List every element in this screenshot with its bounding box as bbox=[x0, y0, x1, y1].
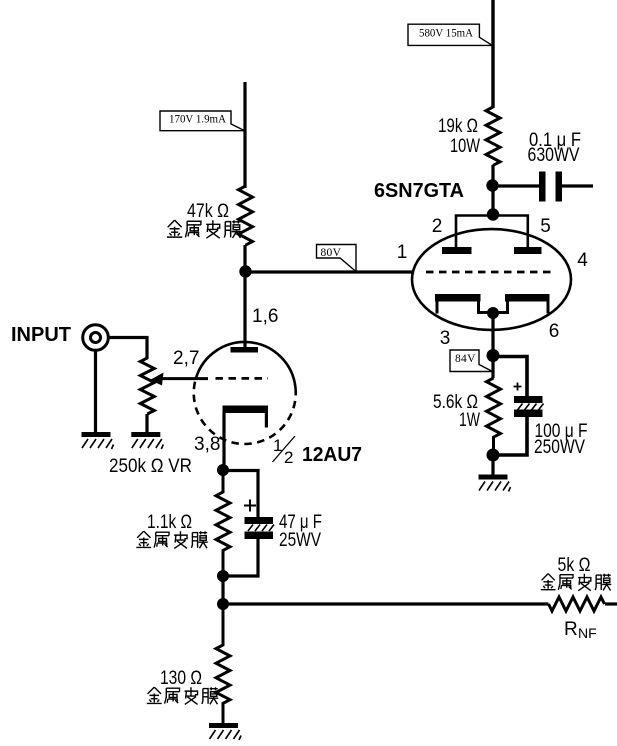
svg-text:2,7: 2,7 bbox=[173, 348, 199, 369]
svg-text:170V 1.9mA: 170V 1.9mA bbox=[169, 114, 227, 126]
cathode 6SN7 section 1 bbox=[435, 294, 508, 314]
resistor 5.6k bbox=[487, 378, 501, 455]
node NFB junction bbox=[217, 598, 229, 610]
capacitor C 100uF branch bbox=[493, 357, 544, 456]
voltage callout 170V 1.9mA bbox=[160, 111, 245, 131]
svg-text:1: 1 bbox=[273, 436, 282, 455]
ground (potentiometer) bbox=[131, 432, 163, 449]
wire node to 12AU7 plate bbox=[243, 272, 246, 348]
svg-text:630WV: 630WV bbox=[528, 145, 580, 166]
svg-text:25WV: 25WV bbox=[279, 530, 321, 551]
resistor 130 kanji label 金属皮膜 bbox=[147, 687, 218, 704]
svg-text:80V: 80V bbox=[321, 247, 342, 259]
voltage callout 580V 15mA bbox=[408, 24, 492, 45]
label R NF bbox=[564, 619, 597, 641]
resistor 47k bbox=[239, 186, 253, 245]
svg-text:12AU7: 12AU7 bbox=[302, 444, 362, 466]
svg-text:47k Ω: 47k Ω bbox=[187, 201, 229, 222]
resistor 5k kanji label 金属皮膜 bbox=[541, 574, 611, 591]
node cap return junction bbox=[217, 570, 229, 582]
wire B+ feed left stage bbox=[243, 82, 246, 188]
svg-text:19k Ω: 19k Ω bbox=[438, 116, 478, 137]
node plate rail junction bbox=[487, 208, 499, 220]
resistor 47k kanji label 金属皮膜 bbox=[167, 220, 241, 238]
svg-text:R: R bbox=[564, 619, 578, 640]
wire cathode down bbox=[491, 313, 494, 378]
plate rail 6SN7 bbox=[456, 216, 528, 248]
voltage callout 80V bbox=[317, 245, 357, 272]
resistor 1.1k bbox=[216, 470, 230, 576]
svg-text:1W: 1W bbox=[459, 410, 480, 431]
wire 19k to plates bbox=[491, 165, 494, 216]
node cathode junction 6SN7 bbox=[487, 307, 499, 319]
node plate junction bbox=[239, 265, 251, 277]
svg-text:1.1k Ω: 1.1k Ω bbox=[147, 512, 192, 533]
cathode 12AU7 bbox=[223, 406, 269, 471]
svg-text:2: 2 bbox=[284, 448, 293, 467]
resistor 130 bbox=[216, 604, 230, 723]
node coupling junction bbox=[486, 179, 498, 191]
resistor 19k bbox=[486, 107, 500, 165]
capacitor C 0.1uF bbox=[493, 172, 593, 202]
svg-text:4: 4 bbox=[577, 250, 588, 271]
potentiometer VR 250k bbox=[140, 358, 208, 432]
svg-text:1: 1 bbox=[397, 242, 408, 263]
ground (input jack) bbox=[82, 432, 114, 449]
svg-text:2: 2 bbox=[432, 216, 443, 237]
triode U1 1/2 12AU7 envelope bbox=[194, 342, 296, 444]
svg-text:580V 15mA: 580V 15mA bbox=[419, 28, 474, 40]
svg-text:3,8: 3,8 bbox=[194, 434, 220, 455]
wire to NFB node bbox=[221, 576, 224, 604]
svg-text:5: 5 bbox=[540, 216, 551, 237]
svg-text:5k Ω: 5k Ω bbox=[558, 555, 591, 576]
wire jack to pot bbox=[109, 338, 148, 360]
wire resistor to plate node bbox=[243, 245, 246, 272]
svg-text:10W: 10W bbox=[450, 136, 480, 157]
wire to ground bbox=[491, 455, 494, 475]
plate 12AU7 bbox=[231, 347, 259, 353]
node cathode junction 12AU7 bbox=[217, 464, 229, 476]
svg-text:NF: NF bbox=[578, 625, 597, 641]
node cathode return junction bbox=[487, 449, 500, 462]
grid 12AU7 (dashed) bbox=[216, 377, 269, 380]
voltage callout 84V bbox=[450, 350, 493, 372]
plate 6SN7 section 1 bbox=[442, 247, 472, 254]
input jack J1 bbox=[83, 325, 109, 351]
resistor R NF 5k (horizontal) bbox=[549, 597, 605, 611]
svg-text:250k Ω VR: 250k Ω VR bbox=[109, 456, 192, 477]
node cathode bypass junction bbox=[487, 349, 500, 362]
svg-text:6SN7GTA: 6SN7GTA bbox=[374, 180, 464, 202]
wire B+ feed right stage bbox=[491, 0, 494, 108]
plate 6SN7 section 2 bbox=[514, 247, 542, 254]
svg-text:84V: 84V bbox=[455, 353, 476, 365]
triode U2 6SN7GTA envelope bbox=[412, 229, 571, 330]
capacitor C 47uF branch bbox=[223, 471, 274, 577]
svg-text:3: 3 bbox=[440, 328, 451, 349]
tube label 1/2 12AU7 bbox=[273, 436, 363, 467]
wire NFB rail bbox=[223, 602, 549, 605]
ground (130 ohm) bbox=[209, 723, 241, 740]
svg-text:250WV: 250WV bbox=[534, 437, 585, 458]
svg-text:INPUT: INPUT bbox=[11, 324, 71, 346]
wire NFB to edge bbox=[605, 602, 617, 605]
svg-text:6: 6 bbox=[549, 321, 560, 342]
svg-text:1,6: 1,6 bbox=[252, 306, 278, 327]
wire jack to ground bbox=[94, 350, 97, 432]
cathode 6SN7 section 2 bbox=[505, 294, 550, 314]
resistor 1.1k kanji label 金属皮膜 bbox=[136, 531, 207, 548]
svg-text:130 Ω: 130 Ω bbox=[160, 668, 202, 689]
wire node to 6SN7 grid bbox=[246, 270, 414, 273]
ground (6SN7 cathode) bbox=[479, 475, 511, 492]
grid 6SN7 (dashed) bbox=[426, 271, 554, 274]
